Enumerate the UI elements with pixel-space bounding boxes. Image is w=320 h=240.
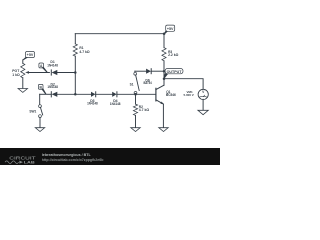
wire bend down to SW1 xyxy=(39,94,41,105)
node junction xyxy=(74,71,77,74)
diode D1 1N4148 xyxy=(47,60,58,75)
svg-text:S1: S1 xyxy=(130,83,134,87)
node junction (VM tap) xyxy=(163,77,166,80)
ground (SW1) xyxy=(35,128,44,132)
node junction xyxy=(134,93,137,96)
resistor R3 2.2 kΩ xyxy=(162,34,179,71)
diode D6 BAT54 xyxy=(144,69,152,86)
node junction xyxy=(74,93,77,96)
wire D4 to base xyxy=(117,93,156,95)
ground (VM1) xyxy=(198,110,208,114)
svg-text:4.7 kΩ: 4.7 kΩ xyxy=(79,50,90,54)
svg-text:+5V: +5V xyxy=(27,53,34,57)
OUTPUT net flag xyxy=(164,68,184,78)
top supply wire xyxy=(75,33,164,35)
+5V supply flag (top right) xyxy=(164,25,175,34)
svg-text:BC546: BC546 xyxy=(166,93,176,97)
svg-text:BAT54: BAT54 xyxy=(144,81,152,85)
svg-text:2.2 kΩ: 2.2 kΩ xyxy=(168,53,179,57)
svg-text:1N4148: 1N4148 xyxy=(47,63,58,67)
wire D2 to D3 xyxy=(57,93,91,95)
+5V supply flag (POT) xyxy=(23,52,35,61)
wire D6 to output node xyxy=(151,70,164,72)
diode D4 1N4148 xyxy=(110,92,121,106)
wire wiper to D1 xyxy=(29,72,50,74)
transistor Q1 BC546 xyxy=(156,85,176,127)
svg-text:http://circuitlab.com/c/x7zppg: http://circuitlab.com/c/x7zppgfk2e6b xyxy=(42,158,104,162)
ground (R2) xyxy=(131,128,140,132)
wire to voltmeter xyxy=(164,79,203,90)
svg-text:1N4148: 1N4148 xyxy=(110,102,121,106)
switch SW1 xyxy=(29,105,42,118)
wire SW1 to ground xyxy=(39,117,41,127)
wire VM1 to ground xyxy=(202,99,204,110)
ground (POT) xyxy=(18,89,27,93)
ground (Q1 emitter) xyxy=(159,128,168,132)
resistor R2 4.7 kΩ xyxy=(133,94,149,127)
diode D2 1N4148 xyxy=(47,82,58,97)
svg-text:LAB: LAB xyxy=(24,160,35,165)
voltmeter VM1 5.000 V xyxy=(183,89,208,99)
svg-text:5.000 V: 5.000 V xyxy=(183,93,193,97)
main wire row xyxy=(40,93,52,95)
resistor R1 4.7 kΩ xyxy=(73,34,90,95)
node B flag xyxy=(38,84,46,94)
wire S1 to D6 xyxy=(135,70,146,72)
svg-text:1N4148: 1N4148 xyxy=(87,102,98,106)
switch S1 xyxy=(130,71,140,94)
node junction (output net) xyxy=(163,70,166,73)
node A flag xyxy=(39,63,48,73)
wire D3 to D4 xyxy=(96,93,113,95)
svg-text:1N4148: 1N4148 xyxy=(47,85,58,89)
diode D3 1N4148 xyxy=(87,92,98,106)
attribution bar xyxy=(0,148,220,165)
svg-text:1 kΩ: 1 kΩ xyxy=(12,73,20,77)
wire POT top xyxy=(22,60,24,64)
node junction xyxy=(163,32,166,35)
wire D1 to R1 column xyxy=(57,72,75,74)
svg-text:lebreathosmorsegicus / BTL: lebreathosmorsegicus / BTL xyxy=(42,153,92,157)
svg-text:4.7 kΩ: 4.7 kΩ xyxy=(139,108,150,112)
svg-text:SW1: SW1 xyxy=(29,110,36,114)
svg-text:OUTPUT: OUTPUT xyxy=(167,70,182,74)
wire output node down xyxy=(163,71,165,85)
svg-text:+5V: +5V xyxy=(167,27,174,31)
potentiometer POT 1 kΩ xyxy=(12,63,29,88)
